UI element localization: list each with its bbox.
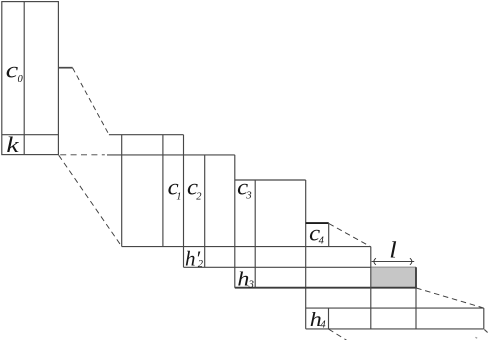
wire vertical divider in c0 group: [23, 2, 25, 155]
wire dashed horizontal under c0 bottom: [60, 154, 105, 156]
wire h4 row top: [306, 307, 484, 309]
wire h4 row bottom: [306, 328, 484, 330]
svg-text:2: 2: [196, 191, 202, 202]
rect c0 group outline: [2, 2, 59, 155]
wire faint dash bottom right: [475, 336, 477, 339]
wire vertical c4 right edge: [328, 223, 330, 247]
label c3: [237, 175, 251, 202]
wire long horizontal row1 top: [122, 246, 371, 248]
wire dashed diagonal row3 to h4 row: [416, 288, 483, 308]
measure arrow l: [372, 258, 415, 265]
wire dashed diagonal c0 to group2 top: [73, 68, 109, 135]
svg-text:h: h: [237, 270, 249, 291]
wire dashed diagonal c4 to gray box top: [329, 224, 371, 247]
svg-text:3: 3: [245, 190, 251, 201]
svg-text:4: 4: [320, 319, 326, 330]
wire c3 top edge: [235, 179, 306, 181]
wire vertical c2 right: [204, 155, 206, 267]
wire vertical group2 right edge: [234, 155, 236, 288]
label h3: [237, 270, 253, 291]
wire vertical gray box left long: [370, 247, 372, 329]
gray box l: [371, 267, 416, 287]
svg-text:l: l: [389, 238, 397, 264]
label h4: [310, 310, 327, 331]
label h2 prime: [185, 246, 204, 270]
wire vertical left edge group2: [121, 135, 123, 247]
wire vertical c1 left: [162, 135, 164, 247]
label c2: [187, 175, 202, 203]
wire group2 second top edge: [107, 154, 235, 156]
wire vertical group3 right edge long: [305, 180, 307, 329]
wire k row top: [2, 134, 59, 136]
wire dashed diagonal below h4 cell: [329, 329, 347, 340]
svg-text:3: 3: [248, 279, 254, 290]
wire c4 top edge thick: [306, 222, 329, 224]
wire group2 top edge: [109, 134, 184, 136]
wire vertical gray box right long: [415, 267, 417, 329]
wire vertical h4 cell divider: [328, 308, 330, 329]
wire long horizontal row3 thick: [235, 287, 416, 289]
svg-text:c: c: [6, 58, 18, 83]
wire vertical h4 row right edge: [483, 308, 485, 329]
svg-text:2: 2: [198, 259, 204, 270]
svg-text:4: 4: [319, 235, 325, 246]
label c0: [6, 58, 24, 85]
label c4: [309, 221, 324, 247]
svg-text:k: k: [6, 132, 20, 157]
wire corner tick bottom right: [484, 329, 487, 332]
wire gray box right edge dark: [415, 267, 417, 288]
svg-text:0: 0: [18, 74, 24, 85]
wire long horizontal row2 top: [184, 266, 417, 268]
wire vertical c1 right c2 left: [183, 135, 185, 268]
wire step segment right of c0: [58, 67, 72, 69]
svg-text:1: 1: [176, 192, 181, 203]
wire vertical c3 right: [254, 180, 256, 288]
wire dashed diagonal c0 bottom to group2 bottom: [59, 155, 122, 246]
label c1: [168, 175, 182, 203]
